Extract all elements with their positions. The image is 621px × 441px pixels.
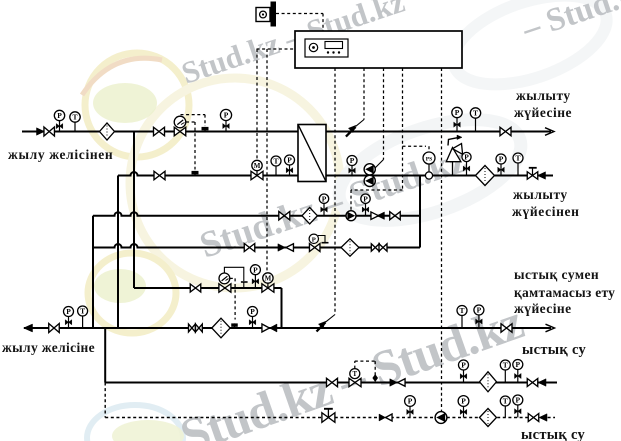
signal wire D3 to circulation pumps [383,68,385,160]
label: to heat network [2,340,95,355]
svg-text:Т: Т [273,157,278,166]
pressure gauge P row4 [248,307,258,329]
vertical pipe V6 dashed part [104,383,106,418]
capped drain valve on circulation [322,409,335,422]
thermometer T heating supply [470,108,480,132]
signal wire: outdoor sensor to controller [276,14,323,32]
pressure gauge P heating supply [452,107,462,131]
thermometer T on return [271,156,281,176]
pipe: hot water line y=382.5 [105,382,557,384]
svg-text:P: P [499,155,504,164]
pressure gauge P supply inlet [54,110,64,131]
label: hot water (upper) [522,342,587,358]
pipe: network return / to DHW system line y=328 [24,327,551,329]
svg-text:P: P [57,111,62,120]
temperature regulator on hot water [349,369,361,387]
arrow to heat network (left, solid) [24,324,33,332]
vertical pipe V5 x=281.5 (row3 to return) [281,288,283,328]
valve on return to network [49,324,60,333]
flow arrow return (solid left) [538,172,546,180]
svg-text:P: P [287,156,292,165]
capped valve on return inlet [527,168,538,179]
flow arrow circulation (solid left) [539,414,547,422]
pressure gauge P row1 b [361,194,370,216]
vertical pipe V6 x=105.2 solid part [104,328,106,383]
signal wire D5 to hot water circulation pump [441,68,443,412]
svg-text:Т: Т [353,371,358,378]
pressure switch PS [423,152,435,172]
water meter (large diamond) [212,318,230,338]
heat exchanger [298,125,326,182]
svg-text:P: P [363,194,368,203]
svg-text:ыстық су: ыстық су [522,342,587,358]
vertical pipe V2 x=118 [117,176,119,329]
pipe: DHW circulation row y=215.7 with bridge humps [93,212,420,215]
controller (ECL) box [295,31,462,68]
svg-text:жылу желісінен: жылу желісінен [8,147,113,162]
valve DHW supply outlet [501,324,512,333]
label: to DHW system [514,267,615,316]
small sensor circle on return pipe [425,172,432,179]
temperature sensor on return pipe [192,171,199,176]
signal wire D3 slant to pump [375,160,384,169]
svg-text:P: P [408,397,413,406]
pipe: DHW mixing row y=288 [134,287,282,289]
signal wire D1 to control valve on return-to-DHW line [334,68,336,315]
capillary to supply sensor [181,115,206,126]
valve circulation right [528,414,539,422]
valve row3 [190,284,201,292]
valve row1 [279,211,290,220]
valve row1 right [390,212,401,220]
twin valves before water meter [189,324,203,332]
check valve row4 [262,324,277,332]
pressure gauge P row1 a [319,194,328,216]
svg-text:Т: Т [80,307,85,316]
pressure gauge P after strainer [220,109,231,131]
signal wire D4 branch to DHW pump [351,190,403,211]
thermometer T supply inlet [70,112,80,132]
outdoor temperature sensor box [256,8,270,22]
pressure gauge P circulation c [513,395,523,418]
svg-text:қамтамасыз ету: қамтамасыз ету [514,285,615,300]
svg-text:Т: Т [72,113,77,122]
flow arrow hot water (solid left) [538,379,546,387]
svg-text:жүйесіне: жүйесіне [514,301,572,316]
flow regulator valve row3 [219,273,231,292]
valve hot water left [327,378,338,387]
flow arrow on supply line [37,128,45,136]
twin valves row2 [371,244,387,252]
valve on return near HX [154,171,165,180]
vertical pipe V4 x=420 [419,176,421,248]
hot water circulation pump [435,412,447,424]
svg-text:P: P [461,397,466,406]
signal wire: controller to motor valves (left web) [257,48,296,50]
vertical pipe V1 x=93 [92,216,94,328]
pressure gauge P on return [285,155,295,176]
svg-text:P: P [464,153,469,162]
svg-text:PS: PS [426,156,433,162]
svg-text:жүйесінен: жүйесінен [512,204,580,219]
pressure gauge P hot water a [459,360,469,383]
svg-text:М: М [254,162,261,170]
svg-text:жүйесіне: жүйесіне [514,105,572,120]
pressure gauge P hot water b [513,360,523,383]
watermark text bands [173,0,621,441]
control valve slash on DHW line [317,315,336,332]
circulation pump row1 [346,211,356,221]
pressure gauge P circulation b [458,396,469,418]
valve row2 [244,244,255,252]
thermometer T network return [78,306,88,328]
label: to heating system [514,88,572,120]
capillary row3 to row4 sensor [230,278,235,319]
svg-text:ыстық сумен: ыстық сумен [514,267,599,282]
strainer row2 [341,239,359,256]
svg-text:P: P [477,306,482,315]
signal wire D4 to pressure switch and pump [402,68,404,190]
controller front panel [305,39,348,57]
valve on supply inlet [44,127,55,136]
pressure gauge P return inlet [496,154,506,176]
pressure gauge P row3 [250,265,260,288]
svg-text:P: P [350,156,355,165]
motor valve M on return [251,160,263,179]
svg-text:Т: Т [503,397,508,406]
signal wire D2 to supply control valve [363,68,365,120]
pressure gauge P circulation a [405,396,416,418]
control valve slash on supply [346,120,364,137]
label: from heating system [512,187,580,219]
pressure gauge P before safety valve [462,152,471,175]
svg-text:жылу желісіне: жылу желісіне [2,340,95,355]
label: hot water (lower) [521,427,586,441]
temperature sensor row4 [231,323,238,328]
signal wire drop to motor valve on DHW row [266,49,268,274]
svg-text:P: P [312,237,316,244]
vertical pipe V3 x=134 [133,132,135,289]
sensor blob on hot water pipe [372,374,378,382]
svg-text:P: P [516,396,521,405]
strainer hot water [480,372,497,392]
svg-text:Т: Т [503,361,508,370]
check valve row2 [278,244,294,252]
thermometer T circulation [500,396,510,418]
svg-text:P: P [66,307,71,316]
strainer circulation [480,409,497,427]
valve heating supply outlet [500,127,511,136]
pipe: cold water make-up row y=247.5 with bridge humps [93,244,420,248]
valve hot water right [527,379,538,387]
pressure gauge P after HX return [347,156,357,176]
motor valve M row3 [262,273,274,292]
check valve row1 [371,212,385,220]
thermometer T hot water [500,360,510,383]
safety valve [446,135,462,175]
self-acting temperature regulator valve [174,116,186,136]
check valve hot water [390,379,405,387]
svg-text:Т: Т [515,154,520,163]
svg-text:М: М [265,275,272,283]
signal wire D4 branch to pressure switch [403,146,430,152]
wall (thick bar) [271,2,277,27]
arrow to DHW system (right, open) [546,324,555,332]
svg-text:P: P [455,108,460,117]
svg-text:жылыту: жылыту [516,88,571,103]
svg-text:Т: Т [459,306,464,315]
strainer (diamond) on supply [100,123,115,140]
svg-text:P: P [461,361,466,370]
capillary hot water regulator [355,361,375,375]
pipe: return line from heating system y=175.5 with bridge hump [118,172,553,175]
temperature sensor on supply pipe [202,127,209,132]
pipe: heat network supply line y=131.5 [22,128,554,136]
strainer on return from heating [476,166,495,186]
pressure regulator row2 [309,234,328,251]
signal wire drop to motor valve on return line [256,49,258,163]
strainer row1 [302,208,317,224]
pressure gauge P network return [64,307,74,329]
svg-text:P: P [250,307,255,316]
svg-text:P: P [253,265,258,274]
thermometer T DHW supply [457,306,467,329]
valve on supply before regulator [154,127,165,136]
svg-text:P: P [516,360,521,369]
impulse line row3 regulator [224,267,247,288]
label: from heat network [8,147,113,162]
pipe: hot water circulation dashed line y=417.5 [105,417,555,419]
pressure gauge P DHW supply [474,305,484,328]
svg-text:жылыту: жылыту [513,187,568,202]
svg-text:ыстық су: ыстық су [521,427,586,441]
check valve circulation [379,414,392,421]
thermometer T return inlet [513,153,523,176]
double circulation pump [364,164,375,187]
svg-text:Т: Т [473,109,478,118]
svg-text:P: P [322,194,327,203]
svg-text:P: P [224,111,229,120]
capillary to return sensor [186,122,195,170]
